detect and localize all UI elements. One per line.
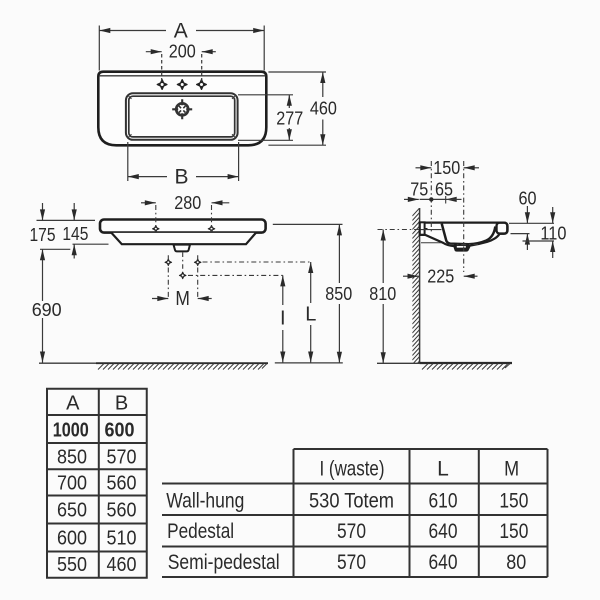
svg-text:850: 850: [325, 284, 352, 304]
dimension 850: [273, 224, 353, 362]
dimension 810: [369, 230, 419, 364]
basin rim (front): [100, 220, 266, 233]
floor line (side view): [377, 362, 512, 364]
wall face line: [419, 208, 421, 364]
dimension 690: [32, 249, 62, 362]
back fixing tab (side): [420, 222, 425, 234]
drain boss (front): [174, 245, 191, 252]
svg-text:690: 690: [32, 300, 62, 320]
fixing hole left (front): [153, 226, 160, 233]
dimension A: [99, 20, 264, 71]
back ledge line (plan): [99, 75, 266, 77]
svg-text:640: 640: [429, 551, 458, 574]
floor hatching (front view): [39, 363, 268, 369]
fixing hole right (front): [208, 226, 215, 233]
centreline tap hole (side): [430, 161, 432, 234]
svg-text:110: 110: [540, 223, 566, 243]
dimension I: [280, 275, 286, 362]
dimension B: [128, 142, 239, 188]
svg-text:700: 700: [57, 473, 87, 495]
svg-text:460: 460: [310, 99, 337, 119]
dimension 200: [146, 42, 216, 84]
svg-text:80: 80: [506, 551, 526, 574]
svg-text:Pedestal: Pedestal: [167, 520, 234, 543]
svg-text:M: M: [504, 457, 519, 480]
dimension 150: [416, 158, 480, 178]
centreline right fixing: [197, 255, 199, 297]
svg-text:Semi-pedestal: Semi-pedestal: [168, 551, 280, 574]
svg-text:B: B: [174, 165, 188, 188]
centreline waste vertical: [182, 253, 184, 271]
dimension M: [152, 288, 212, 310]
svg-text:65: 65: [435, 180, 453, 200]
svg-text:280: 280: [174, 193, 201, 213]
basin outline (plan): [98, 72, 266, 146]
A/B table: [47, 389, 147, 578]
svg-text:600: 600: [57, 528, 87, 550]
bowl interior line (side): [442, 224, 496, 245]
svg-text:145: 145: [62, 224, 88, 244]
tap hole center: [177, 80, 187, 90]
svg-text:850: 850: [57, 446, 87, 468]
dimension 277: [238, 95, 303, 141]
svg-text:570: 570: [107, 446, 137, 468]
back ledge line (side): [421, 229, 442, 231]
svg-text:L: L: [305, 304, 316, 326]
svg-text:460: 460: [107, 554, 137, 576]
svg-text:175: 175: [30, 225, 56, 245]
wall hatching: [412, 208, 419, 369]
dimension 460: [268, 72, 337, 145]
svg-text:150: 150: [499, 520, 528, 543]
svg-text:A: A: [66, 392, 80, 414]
svg-text:650: 650: [57, 500, 87, 522]
dimension 75 / 65: [404, 180, 462, 204]
svg-text:640: 640: [429, 520, 458, 543]
svg-text:M: M: [175, 288, 190, 310]
waste point center (front): [179, 272, 186, 279]
svg-text:510: 510: [107, 528, 137, 550]
floor hatching (side view): [422, 364, 510, 370]
dimension 145: [62, 203, 88, 259]
back lower line (side): [421, 242, 441, 244]
dimension 175: [30, 203, 56, 245]
inner bowl inner edge (plan): [127, 95, 236, 139]
centreline waste horizontal: [188, 274, 283, 276]
centreline left fixing: [167, 255, 169, 298]
svg-text:L: L: [437, 457, 449, 480]
svg-text:560: 560: [107, 473, 137, 495]
svg-text:530 Totem: 530 Totem: [309, 489, 394, 512]
basin profile (side view): [420, 222, 508, 250]
inner bowl outer edge (plan): [126, 93, 238, 140]
svg-text:570: 570: [337, 520, 366, 543]
fixing point right (front): [194, 259, 201, 266]
svg-text:610: 610: [429, 489, 458, 512]
bowl underside (front): [112, 233, 256, 244]
dimension 110: [523, 207, 567, 258]
drain hole (plan): [172, 99, 192, 119]
svg-text:I (waste): I (waste): [320, 457, 385, 480]
svg-text:B: B: [115, 392, 128, 414]
svg-text:550: 550: [57, 554, 87, 576]
svg-text:150: 150: [499, 489, 528, 512]
dimension 280: [141, 193, 229, 232]
svg-text:225: 225: [427, 266, 454, 286]
svg-text:277: 277: [276, 108, 303, 128]
svg-text:810: 810: [369, 284, 396, 304]
svg-text:I: I: [280, 308, 286, 330]
svg-text:150: 150: [433, 158, 460, 178]
floor line (dimension landing, front view): [275, 362, 343, 364]
svg-text:600: 600: [105, 420, 135, 442]
dimension L: [305, 262, 316, 363]
svg-text:560: 560: [107, 500, 137, 522]
svg-text:570: 570: [337, 551, 366, 574]
installation table: [162, 449, 548, 577]
fixing point left (front): [165, 259, 172, 266]
svg-text:75: 75: [410, 180, 428, 200]
svg-text:Wall-hung: Wall-hung: [166, 489, 244, 512]
dimension 60: [509, 188, 554, 250]
front bullnose (side): [497, 223, 508, 234]
centreline fixing horizontal: [203, 261, 311, 263]
svg-text:1000: 1000: [53, 420, 89, 442]
drain recess (side): [454, 244, 470, 250]
dimension 175 / 145 extension lines: [37, 220, 109, 249]
svg-text:A: A: [174, 20, 188, 43]
centreline drain (side): [449, 161, 478, 272]
svg-text:200: 200: [169, 42, 196, 62]
tap hole right: [197, 80, 207, 90]
tap hole left: [157, 80, 167, 90]
svg-text:60: 60: [519, 188, 537, 208]
dimension 225: [403, 266, 478, 286]
